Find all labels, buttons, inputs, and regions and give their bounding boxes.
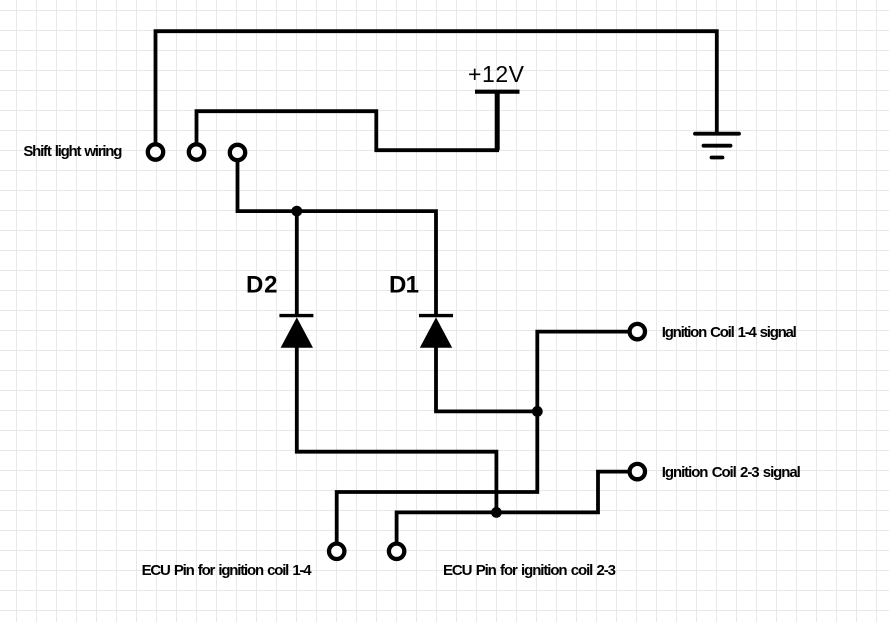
svg-text:ECU Pin for ignition coil 2-3: ECU Pin for ignition coil 2-3 [443,562,616,579]
svg-text:Ignition Coil 2-3 signal: Ignition Coil 2-3 signal [662,464,801,481]
wire +12V net: terminal 2 up, right, down, right, up to supply stem [197,92,498,150]
shift light terminal 1 [148,144,163,159]
terminal ECU pin coil 1-4 [329,544,344,559]
wire terminal 3 down to diode rail, across to D1 [238,153,437,315]
wire top rail from shift-light terminal 1 up, across, down to ground [156,31,717,146]
shift light terminal 2 [189,144,204,159]
svg-text:Shift light wiring: Shift light wiring [23,143,122,160]
diode D1 [419,316,453,348]
+12V supply terminal bar [475,90,520,94]
svg-text:D2: D2 [246,272,278,299]
wire D1 anode down, right to coil 1-4 rail [436,347,537,411]
wire ignition coil 2-3 net [397,472,638,551]
node junction D1 / coil 1-4 [532,406,543,417]
wire D2 cathode stub [295,211,299,314]
svg-text:+12V: +12V [468,61,525,87]
wire ignition coil 1-4 net [337,332,638,551]
ground [695,134,739,158]
shift light terminal 3 [230,145,245,160]
terminal ignition coil 2-3 signal [630,464,645,479]
svg-text:Ignition Coil 1-4 signal: Ignition Coil 1-4 signal [662,324,797,341]
node junction diode rail / D2 [291,206,302,217]
svg-text:ECU Pin for ignition coil 1-4: ECU Pin for ignition coil 1-4 [142,562,313,579]
terminal ECU pin coil 2-3 [389,544,404,559]
wire D2 anode down, right, down to coil 2-3 rail [297,347,497,512]
diode D2 [279,316,313,348]
svg-text:D1: D1 [389,272,419,299]
node junction D2 / coil 2-3 [491,507,502,518]
terminal ignition coil 1-4 signal [630,324,645,339]
wire +12V stem [495,92,500,150]
